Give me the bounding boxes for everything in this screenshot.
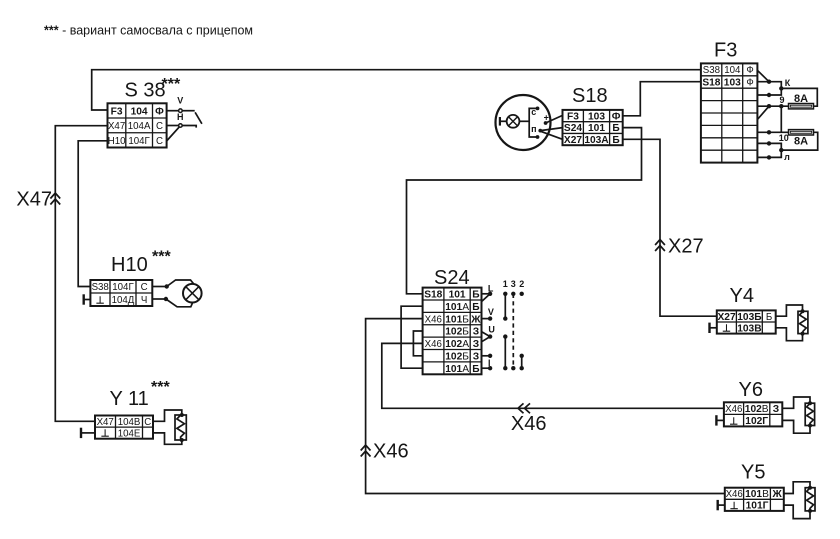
connector X47 xyxy=(16,189,60,211)
svg-text:102А: 102А xyxy=(445,339,469,350)
connector X27 xyxy=(655,236,703,258)
svg-text:Б: Б xyxy=(612,123,619,134)
svg-text:Б: Б xyxy=(472,302,479,313)
svg-text:101В: 101В xyxy=(745,489,769,500)
svg-text:⊥: ⊥ xyxy=(729,416,738,427)
svg-text:Ф: Ф xyxy=(746,78,753,89)
svg-text:Б: Б xyxy=(472,290,479,301)
svg-text:Х46: Х46 xyxy=(425,314,442,325)
svg-text:Х46: Х46 xyxy=(725,404,742,415)
svg-text:104В: 104В xyxy=(118,417,141,428)
svg-text:Х46: Х46 xyxy=(425,339,442,350)
svg-text:***: *** xyxy=(162,76,181,93)
svg-text:1: 1 xyxy=(503,279,508,289)
lamp H10 bulb symbol xyxy=(152,280,201,307)
svg-text:Y6: Y6 xyxy=(739,379,763,401)
svg-text:⊥: ⊥ xyxy=(96,295,105,306)
svg-text:п: п xyxy=(531,124,536,134)
valve Y6 title xyxy=(739,379,763,401)
valve Y4 title xyxy=(730,285,754,307)
svg-text:Ф: Ф xyxy=(746,65,753,76)
svg-text:S18: S18 xyxy=(572,85,608,107)
svg-text:Х46: Х46 xyxy=(726,489,743,500)
svg-text:103А: 103А xyxy=(584,135,609,146)
svg-text:F3: F3 xyxy=(111,107,123,118)
svg-text:Ж: Ж xyxy=(470,314,481,325)
valve Y5 coil symbol xyxy=(784,482,815,519)
wire S18 row3 to X27 to Y4 xyxy=(623,139,717,316)
wire S24 row3 to X46 to Y5 xyxy=(366,319,725,494)
svg-text:Х47: Х47 xyxy=(97,417,114,428)
svg-text:S38: S38 xyxy=(703,65,720,76)
valve Y5 title xyxy=(741,462,765,484)
switch S38 title xyxy=(125,76,181,102)
svg-text:З: З xyxy=(473,327,479,338)
svg-text:101А: 101А xyxy=(445,364,469,375)
svg-text:S24: S24 xyxy=(434,267,470,289)
svg-text:Ф: Ф xyxy=(155,107,164,118)
svg-text:103Б: 103Б xyxy=(737,312,761,323)
svg-text:Х27: Х27 xyxy=(668,236,704,258)
svg-text:9: 9 xyxy=(779,95,784,105)
svg-text:104Г: 104Г xyxy=(128,136,150,147)
svg-text:***: *** xyxy=(151,379,170,396)
valve Y5 table xyxy=(725,488,784,512)
svg-text:Y4: Y4 xyxy=(730,285,754,307)
wire S18 row2 to S24 row1 xyxy=(407,128,642,294)
svg-text:102Г: 102Г xyxy=(745,416,768,427)
svg-text:З: З xyxy=(473,352,479,363)
svg-text:Х47: Х47 xyxy=(108,121,125,132)
valve Y11 coil symbol xyxy=(153,410,186,444)
wire S38 row3 to H10 xyxy=(78,141,107,287)
wire S38 row2 to X47 to Y11 xyxy=(55,126,107,422)
valve Y11 table xyxy=(95,416,153,440)
svg-text:U: U xyxy=(488,324,495,334)
fuse block F3 table xyxy=(701,63,758,162)
svg-text:S18: S18 xyxy=(702,78,720,89)
svg-text:л: л xyxy=(784,152,790,162)
svg-text:***: *** xyxy=(152,249,171,266)
ground at Y4 xyxy=(710,323,717,333)
svg-text:Ж: Ж xyxy=(771,489,782,500)
svg-text:8А: 8А xyxy=(794,93,808,105)
wire S24 loop row2 to row7 xyxy=(401,306,423,368)
svg-text:103: 103 xyxy=(724,78,741,89)
svg-text:3: 3 xyxy=(511,279,516,289)
valve Y4 table xyxy=(717,310,776,334)
svg-text:104Г: 104Г xyxy=(112,282,134,293)
svg-text:Н10: Н10 xyxy=(108,136,126,147)
svg-text:С: С xyxy=(156,121,163,132)
switch S18 table xyxy=(563,110,623,146)
svg-text:Б: Б xyxy=(766,312,772,323)
svg-text:К: К xyxy=(785,78,791,88)
svg-text:V: V xyxy=(488,307,494,317)
switch S24 title xyxy=(434,267,470,289)
svg-text:102В: 102В xyxy=(745,404,769,415)
fuse block F3 title xyxy=(714,40,737,62)
note: variant legend xyxy=(44,24,253,38)
valve Y6 coil symbol xyxy=(782,397,814,433)
svg-text:S 38: S 38 xyxy=(125,80,166,102)
svg-text:101: 101 xyxy=(588,123,605,134)
svg-text:Х47: Х47 xyxy=(16,189,52,211)
switch S38 table xyxy=(108,103,167,147)
svg-text:Х27: Х27 xyxy=(718,312,736,323)
wire top bus S38 to F3 xyxy=(92,70,701,110)
wire S24 loop row4 to row6 xyxy=(413,331,422,356)
svg-text:Б: Б xyxy=(472,364,479,375)
svg-text:С: С xyxy=(156,136,163,147)
lamp H10 title xyxy=(111,249,171,277)
svg-text:С: С xyxy=(141,282,148,293)
svg-text:⊥: ⊥ xyxy=(101,429,110,440)
svg-text:Н: Н xyxy=(177,112,184,122)
svg-text:V: V xyxy=(177,96,183,106)
svg-text:З: З xyxy=(473,339,479,350)
valve Y4 coil symbol xyxy=(776,305,808,341)
svg-text:Х27: Х27 xyxy=(564,135,582,146)
svg-text:Ф: Ф xyxy=(612,112,621,123)
valve Y11 title xyxy=(110,379,171,410)
svg-text:104Д: 104Д xyxy=(112,295,135,306)
wire S24 row5 to X46 to Y6 xyxy=(382,343,724,408)
ground at H10 xyxy=(84,294,91,304)
switch S18 title xyxy=(572,85,608,107)
svg-text:S18: S18 xyxy=(424,290,442,301)
switch S24 contact chart xyxy=(482,279,525,370)
svg-text:Б: Б xyxy=(612,135,619,146)
svg-text:⊥: ⊥ xyxy=(730,501,739,512)
svg-text:104А: 104А xyxy=(128,121,151,132)
ground at Y11 xyxy=(81,428,95,438)
valve Y6 table xyxy=(724,402,782,427)
svg-text:Н10: Н10 xyxy=(111,254,148,276)
svg-text:104: 104 xyxy=(724,65,741,76)
svg-text:8А: 8А xyxy=(794,136,808,148)
svg-text:З: З xyxy=(773,404,779,415)
svg-text:*** - вариант самосвала с приц: *** - вариант самосвала с прицепом xyxy=(44,24,253,38)
lamp H10 table xyxy=(90,280,152,306)
svg-text:с: с xyxy=(531,107,536,117)
svg-text:102Б: 102Б xyxy=(445,352,469,363)
svg-text:L: L xyxy=(488,283,494,293)
ground at Y6 xyxy=(716,415,724,425)
svg-text:104: 104 xyxy=(131,107,148,118)
switch S18 symbol circle with lamp xyxy=(496,95,563,150)
svg-text:F3: F3 xyxy=(567,112,579,123)
svg-text:Х46: Х46 xyxy=(373,441,409,463)
svg-text:F3: F3 xyxy=(714,40,737,62)
switch S24 table xyxy=(423,288,482,375)
svg-text:103: 103 xyxy=(588,112,605,123)
connector X46 horizontal xyxy=(511,403,547,435)
svg-text:102Б: 102Б xyxy=(445,327,469,338)
svg-text:103В: 103В xyxy=(737,323,761,334)
svg-text:2: 2 xyxy=(519,279,524,289)
svg-text:Ч: Ч xyxy=(141,295,147,306)
svg-text:I: I xyxy=(488,358,491,368)
ground at Y5 xyxy=(718,500,725,510)
svg-text:101: 101 xyxy=(449,290,466,301)
svg-text:⊥: ⊥ xyxy=(722,324,731,335)
connector X46 vertical xyxy=(361,441,409,463)
svg-text:S24: S24 xyxy=(564,123,582,134)
wire F3 row2 to S18 row1 xyxy=(623,82,701,116)
svg-text:104Е: 104Е xyxy=(118,428,141,439)
svg-text:S38: S38 xyxy=(92,282,109,293)
svg-text:С: С xyxy=(144,417,151,428)
svg-text:Х46: Х46 xyxy=(511,413,547,435)
svg-text:101Б: 101Б xyxy=(445,314,469,325)
fuse block F3 right side wiring xyxy=(757,70,817,162)
svg-text:Y5: Y5 xyxy=(741,462,765,484)
svg-text:10: 10 xyxy=(779,133,789,143)
svg-text:Y 11: Y 11 xyxy=(110,388,149,410)
svg-text:101Г: 101Г xyxy=(746,501,769,512)
switch S38 contacts V and H xyxy=(167,96,202,142)
svg-text:101А: 101А xyxy=(445,302,469,313)
